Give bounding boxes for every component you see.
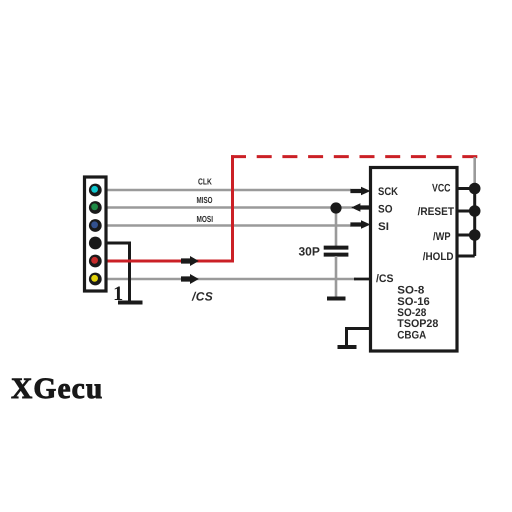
svg-text:SO: SO (378, 203, 393, 215)
capacitor C1 wire lower (gray) (335, 256, 338, 297)
connector pin dot (black, GND) (89, 237, 102, 250)
wire CLK (101, 189, 351, 192)
pin stub /RESET (457, 210, 475, 213)
svg-text:30P: 30P (299, 245, 320, 259)
wire /CS pin stub (black) (354, 278, 371, 281)
wire MISO (101, 206, 353, 209)
svg-text:SO-28: SO-28 (397, 307, 426, 319)
svg-text:SCK: SCK (378, 186, 398, 198)
pin stub /HOLD (457, 255, 475, 258)
svg-text:SO-16: SO-16 (397, 296, 430, 308)
svg-text:VCC: VCC (432, 182, 451, 194)
ground (connector) (118, 301, 143, 305)
wire GND from black pin (97, 243, 130, 302)
svg-text:SO-8: SO-8 (397, 285, 424, 297)
wire VCC bus vertical (473, 189, 476, 257)
ground (chip) (338, 345, 357, 349)
svg-text:/HOLD: /HOLD (423, 251, 454, 263)
pin arrow SCK (into chip) (350, 187, 370, 195)
wire VCC red vertical (231, 155, 234, 262)
wire VCC red dashed (231, 155, 478, 158)
svg-text:CLK: CLK (198, 177, 212, 187)
pin stub /WP (457, 234, 475, 237)
svg-text:1: 1 (113, 283, 123, 305)
node /WP junction (469, 229, 481, 241)
svg-text:CBGA: CBGA (397, 329, 426, 341)
svg-text:MISO: MISO (197, 195, 213, 205)
wire VCC red horizontal (98, 260, 234, 263)
pin arrow SO (out of chip) (351, 203, 370, 211)
connector pin dot (yellow, /CS) (89, 273, 102, 286)
svg-text:/CS: /CS (191, 290, 213, 304)
connector pin dot (blue, MOSI) (89, 219, 102, 232)
pin stub VCC (457, 187, 475, 190)
svg-text:MOSI: MOSI (197, 214, 214, 224)
connector J1 body (85, 177, 107, 291)
svg-text:/WP: /WP (433, 231, 451, 243)
wire MOSI (101, 224, 351, 227)
pin arrow SI (into chip) (350, 220, 370, 228)
wire from dashed line to VCC node (gray) (473, 157, 476, 190)
connector pin dot (green, MISO) (89, 201, 102, 214)
node /RESET junction (469, 205, 481, 217)
capacitor C1 wire upper (gray) (335, 208, 338, 247)
arrow on /CS wire (181, 274, 199, 284)
svg-text:/CS: /CS (376, 273, 394, 285)
svg-text:/RESET: /RESET (418, 206, 455, 218)
connector pin dot (red, VCC) (89, 255, 102, 268)
svg-text:XGecu: XGecu (11, 373, 103, 405)
svg-text:SI: SI (378, 221, 389, 233)
wire /CS (gray) (101, 278, 356, 281)
wire chip GND (347, 329, 372, 348)
IC U1 body (371, 168, 458, 352)
connector pin dot (cyan, CLK) (89, 184, 102, 197)
node VCC junction (469, 183, 481, 195)
ground (capacitor) (327, 297, 346, 301)
arrow on red VCC wire (181, 256, 199, 266)
node SO junction (330, 202, 341, 213)
capacitor C1 plates (324, 246, 349, 250)
